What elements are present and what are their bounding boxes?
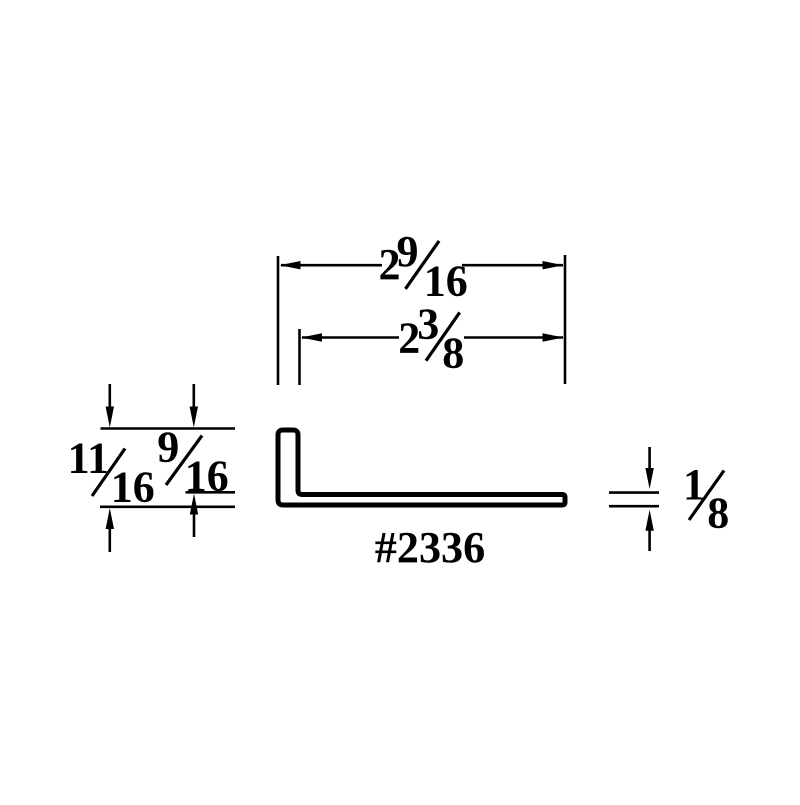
right dim 1/8: bottom extension line [609, 505, 659, 508]
svg-text:11: 11 [68, 434, 110, 483]
extension line left inner (x=299.5) [298, 329, 301, 385]
svg-text:8: 8 [707, 488, 729, 537]
dim line 2 3/8 right segment [464, 336, 563, 339]
dim line 2 9/16 left segment [281, 264, 382, 267]
svg-text:16: 16 [185, 452, 229, 501]
left down arrow 1 (11/16 top) [109, 384, 112, 412]
left up arrow 1 (11/16 bottom) [109, 524, 112, 552]
right dim 1/8: top extension line [609, 491, 659, 494]
dim label 2 9/16 [379, 227, 468, 306]
svg-text:8: 8 [442, 329, 464, 378]
left dims: top extension line (y=428.5) [101, 427, 236, 430]
svg-text:16: 16 [424, 257, 468, 306]
dim line 2 9/16 right arrowhead [543, 261, 564, 269]
extension line left outer (x=278) [277, 256, 280, 385]
right dim up arrow [648, 526, 651, 551]
svg-text:9: 9 [397, 227, 419, 276]
svg-text:16: 16 [111, 463, 155, 512]
svg-text:3: 3 [417, 300, 439, 349]
profile #2336 L-shape outline [278, 430, 565, 505]
left dims: middle extension line (y=492.3) [186, 491, 236, 494]
svg-text:9: 9 [157, 423, 179, 472]
dim line 2 3/8 left arrowhead [301, 333, 322, 341]
dim label 11/16 [68, 434, 155, 512]
dim line 2 9/16 left arrowhead [280, 261, 301, 269]
svg-text:#2336: #2336 [375, 523, 485, 572]
right dim down arrow [648, 447, 651, 472]
extension line right (x=565) [564, 255, 567, 384]
dim line 2 9/16 right segment [462, 264, 563, 267]
dim label 1/8 [683, 460, 729, 538]
dim label 9/16 [157, 423, 228, 501]
dim label 2 3/8 [398, 300, 464, 378]
left up arrow 2 (9/16 bottom) [193, 511, 196, 537]
dim line 2 3/8 right arrowhead [543, 333, 564, 341]
left dims: bottom extension line (y=506.8) [100, 505, 235, 508]
dim line 2 3/8 left segment [302, 336, 399, 339]
left down arrow 2 (9/16 top) [193, 384, 196, 412]
